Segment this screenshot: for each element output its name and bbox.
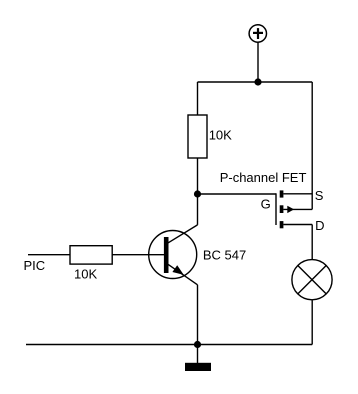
svg-text:D: D — [315, 218, 324, 233]
svg-text:P-channel FET: P-channel FET — [220, 170, 307, 185]
svg-text:PIC: PIC — [24, 258, 46, 273]
svg-text:S: S — [315, 188, 324, 203]
svg-text:10K: 10K — [74, 266, 97, 281]
svg-text:10K: 10K — [209, 128, 232, 143]
svg-text:BC 547: BC 547 — [203, 248, 246, 263]
svg-text:G: G — [261, 197, 271, 212]
